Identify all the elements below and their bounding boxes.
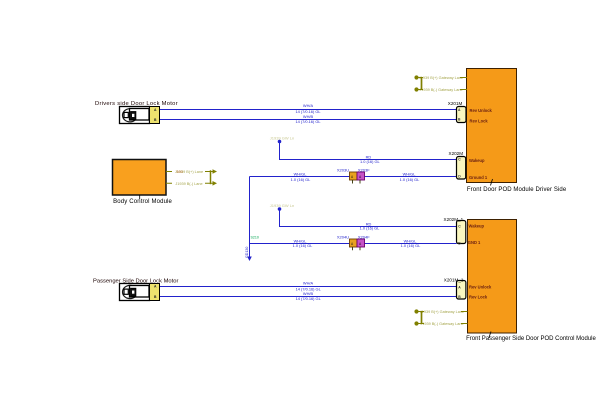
svg-text:S210: S210 (251, 236, 259, 240)
svg-text:Front Passenger Side Door POD: Front Passenger Side Door POD Control Mo… (466, 336, 596, 342)
svg-text:Wakeup: Wakeup (469, 224, 485, 229)
svg-text:GND 1: GND 1 (468, 240, 481, 245)
svg-text:1.0 (16) GL: 1.0 (16) GL (401, 243, 422, 248)
svg-text:500: 500 (177, 170, 183, 174)
svg-text:GD130: GD130 (245, 247, 249, 258)
svg-text:14 (7/0.16) GL: 14 (7/0.16) GL (296, 296, 322, 301)
svg-text:X202M: X202M (449, 151, 464, 156)
svg-text:X203U: X203U (337, 168, 349, 173)
svg-text:1.0 (16) GL: 1.0 (16) GL (400, 177, 421, 182)
svg-text:J1939 B(+) Gateway Lane: J1939 B(+) Gateway Lane (419, 76, 463, 80)
svg-text:Drivers side Door Lock Motor: Drivers side Door Lock Motor (95, 101, 178, 107)
svg-text:Rev Unlock: Rev Unlock (470, 108, 493, 113)
svg-text:Body Control Module: Body Control Module (113, 199, 172, 205)
svg-text:WH/GL: WH/GL (294, 172, 308, 177)
svg-text:X201M_1: X201M_1 (444, 277, 464, 282)
svg-text:J1939 GW Ln: J1939 GW Ln (270, 203, 294, 208)
svg-text:X204F: X204F (358, 235, 370, 240)
svg-text:X202M_1: X202M_1 (444, 217, 464, 222)
svg-text:1.0 (16) GL: 1.0 (16) GL (293, 243, 314, 248)
svg-text:WH/GL: WH/GL (403, 172, 417, 177)
svg-text:X201M: X201M (448, 101, 463, 106)
svg-text:J1939 B(-) Lane: J1939 B(-) Lane (175, 182, 202, 186)
svg-text:1.0 (16) GL: 1.0 (16) GL (291, 177, 312, 182)
svg-text:Ground 1: Ground 1 (469, 175, 488, 180)
svg-text:WH/A: WH/A (303, 281, 314, 286)
svg-text:1.0 (16) GL: 1.0 (16) GL (360, 159, 381, 164)
svg-text:J1939 B(-) Gateway Lane: J1939 B(-) Gateway Lane (420, 322, 463, 326)
svg-text:Passenger Side Door Lock Motor: Passenger Side Door Lock Motor (93, 279, 178, 285)
svg-text:1.0 (16) GL: 1.0 (16) GL (360, 226, 381, 231)
svg-text:Rev Unlock: Rev Unlock (469, 285, 492, 290)
svg-text:WH/A: WH/A (303, 103, 314, 108)
svg-text:Rev Lock: Rev Lock (469, 294, 488, 299)
svg-text:Front Door POD Module Driver S: Front Door POD Module Driver Side (467, 187, 567, 193)
svg-text:X203F: X203F (358, 168, 370, 173)
svg-text:J1939 GW Ln: J1939 GW Ln (270, 136, 294, 141)
svg-text:J1939 B(+) Gateway Lane: J1939 B(+) Gateway Lane (420, 310, 464, 314)
svg-text:14 (7/0.16) GL: 14 (7/0.16) GL (295, 119, 321, 124)
svg-text:Wakeup: Wakeup (469, 158, 485, 163)
svg-text:X204U: X204U (337, 235, 349, 240)
svg-text:J1939 B(-) Gateway Lane: J1939 B(-) Gateway Lane (419, 88, 462, 92)
svg-text:Rev Lock: Rev Lock (470, 118, 489, 123)
